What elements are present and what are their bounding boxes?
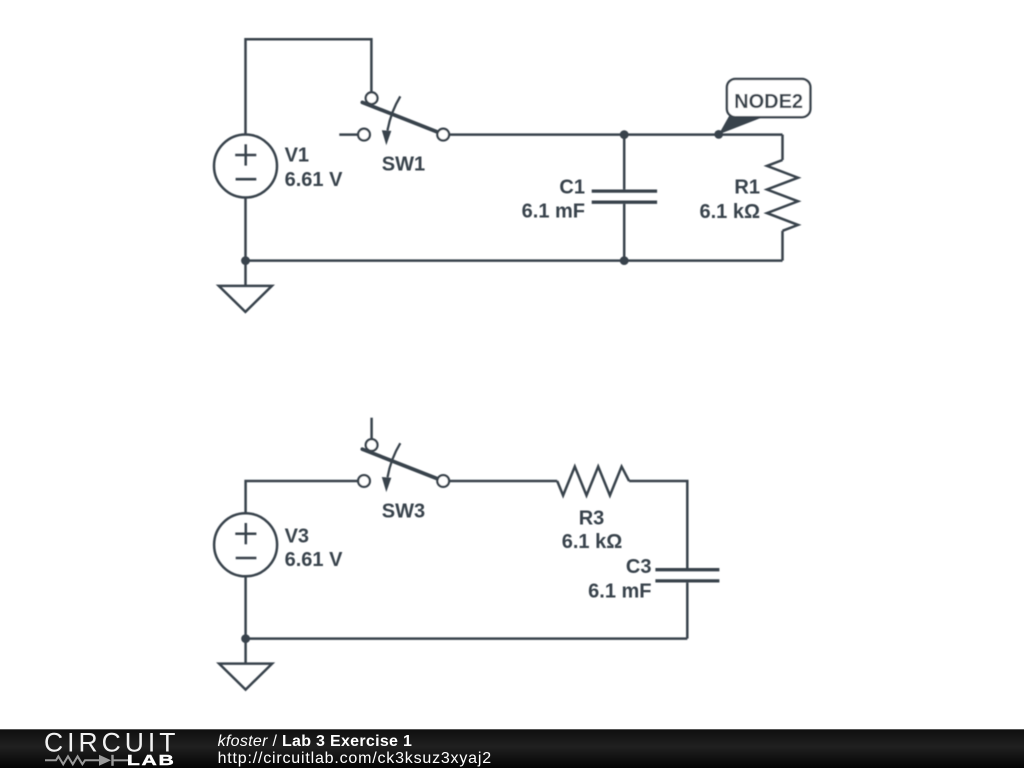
svg-text:R3: R3 [579, 507, 605, 529]
svg-text:6.1 mF: 6.1 mF [522, 201, 585, 223]
svg-text:http://circuitlab.com/ck3ksuz3: http://circuitlab.com/ck3ksuz3xyaj2 [218, 750, 492, 767]
svg-text:SW3: SW3 [382, 501, 425, 523]
svg-text:NODE2: NODE2 [734, 91, 803, 113]
svg-text:V1: V1 [285, 145, 309, 167]
svg-text:6.61 V: 6.61 V [285, 549, 343, 571]
svg-text:SW1: SW1 [382, 154, 425, 176]
svg-text:R1: R1 [734, 177, 760, 199]
svg-text:6.61 V: 6.61 V [285, 169, 343, 191]
svg-text:6.1 kΩ: 6.1 kΩ [699, 201, 760, 223]
svg-text:kfoster / Lab 3 Exercise 1: kfoster / Lab 3 Exercise 1 [218, 733, 413, 750]
svg-text:6.1 mF: 6.1 mF [588, 580, 651, 602]
svg-text:6.1 kΩ: 6.1 kΩ [562, 531, 623, 553]
svg-text:C1: C1 [559, 176, 585, 198]
svg-text:V3: V3 [285, 526, 309, 548]
svg-text:C3: C3 [626, 556, 652, 578]
svg-text:LAB: LAB [127, 751, 176, 768]
